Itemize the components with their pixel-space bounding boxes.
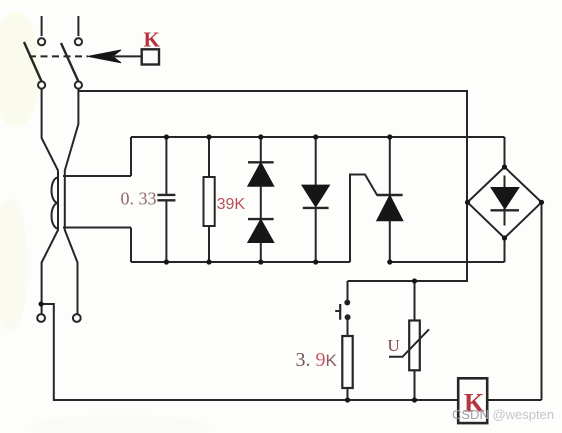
switch S2 lower terminal: [75, 81, 82, 88]
wire from S2 to transformer: [65, 89, 79, 171]
label K (top): [144, 28, 161, 52]
thyristor Q1 gate wire: [350, 175, 377, 263]
wire bridge right AC to relay K: [541, 202, 543, 400]
trip arrow to K coil: [88, 50, 142, 63]
svg-text:39K: 39K: [217, 196, 246, 213]
wire main box bottom rail left segment: [131, 261, 350, 263]
diode D1 upper of series pair: [248, 137, 274, 186]
thyristor Q1: [377, 137, 403, 262]
bridge rectifier BR1 diamond: [468, 167, 542, 238]
output terminal left: [37, 314, 45, 322]
wire main box top rail: [131, 136, 505, 138]
svg-text:K: K: [144, 28, 161, 52]
svg-text:0. 33: 0. 33: [121, 189, 157, 209]
switch S1 lower terminal: [38, 81, 45, 88]
wire bridge DC+ top feed: [504, 137, 506, 167]
junction dot left branch: [39, 301, 44, 306]
varistor RV1: [389, 281, 429, 400]
wire from S1 to transformer: [42, 89, 58, 171]
switch S2 upper terminal: [75, 38, 82, 45]
label K (bottom): [464, 389, 485, 418]
switch S1 top stub wire: [41, 16, 43, 36]
switch S1 blade: [24, 42, 42, 82]
switch S1 upper terminal: [38, 38, 45, 45]
current transformer primary left conductor: [42, 171, 58, 315]
relay coil box K (bottom): [458, 378, 487, 423]
resistor R1 39K: [204, 137, 215, 262]
label 39K: [217, 196, 246, 213]
current transformer secondary winding arcs: [52, 178, 58, 229]
junction dots bottom rail: [345, 397, 417, 402]
bridge rectifier BR1 inner diode: [491, 176, 520, 226]
svg-text:3. 9K: 3. 9K: [296, 349, 338, 371]
switch S2 top stub wire: [77, 16, 79, 36]
pushbutton SB1: [335, 301, 349, 337]
label U: [388, 336, 400, 355]
current transformer primary right conductor: [65, 171, 78, 315]
diode D2 lower of series pair: [248, 186, 274, 262]
wire top rail from S2 to bridge AC input: [78, 91, 467, 281]
wire secondary upper lead: [63, 175, 131, 177]
junction dots bridge vertices: [465, 164, 544, 240]
relay coil box K (top): [142, 49, 159, 64]
junction dots top rail: [164, 134, 393, 139]
junction dot varistor tap: [412, 278, 417, 283]
resistor R2 3.9K: [342, 336, 352, 400]
output terminal right: [73, 314, 81, 322]
svg-text:U: U: [388, 336, 400, 355]
label 0.33: [121, 189, 157, 209]
mechanical linkage dashed line: [29, 55, 88, 57]
wire secondary lower lead: [63, 227, 131, 229]
wire bottom rail right part: [487, 399, 541, 401]
wire main box left side lower: [130, 228, 132, 263]
wire bottom rail left part: [41, 304, 458, 400]
label 3.9K: [296, 349, 338, 371]
capacitor C1 0.33: [157, 137, 175, 262]
junction dots bottom rail of box: [164, 259, 393, 264]
switch S2 blade: [61, 43, 78, 82]
wire bridge DC- bottom feed: [504, 238, 506, 262]
wire main box left side upper: [130, 137, 132, 176]
wire control rail: [347, 281, 349, 302]
watermark: [452, 407, 554, 422]
diode D3: [303, 137, 329, 262]
svg-text:CSDN @wespten: CSDN @wespten: [452, 407, 554, 422]
wire main box bottom rail right segment: [390, 261, 505, 263]
